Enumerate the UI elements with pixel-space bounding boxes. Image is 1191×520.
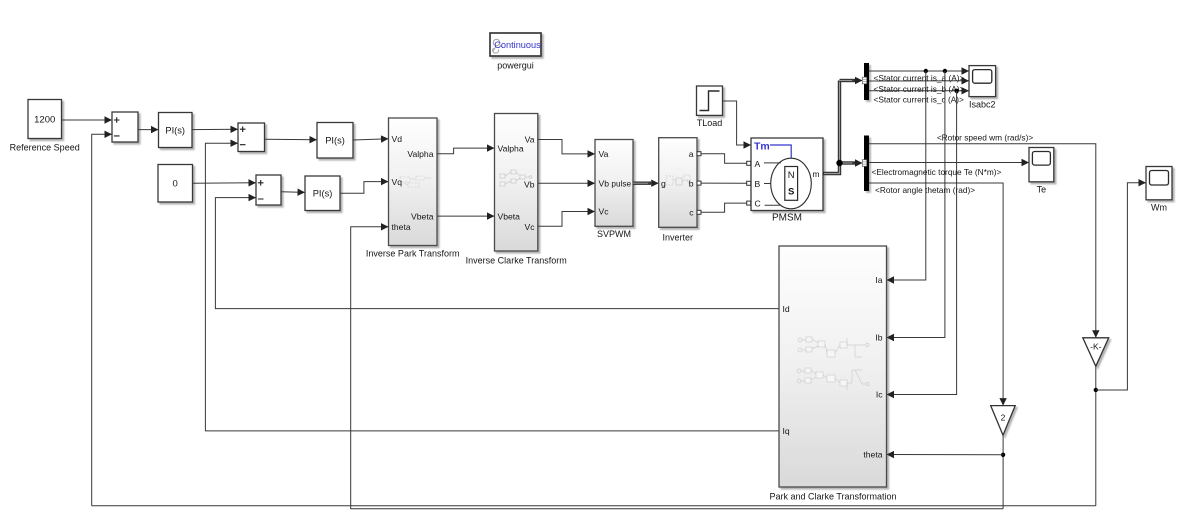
- PMSM port labels: [755, 159, 820, 209]
- svg-text:Reference Speed: Reference Speed: [10, 143, 80, 153]
- step block TLoad: [697, 86, 723, 115]
- svg-text:0: 0: [173, 179, 178, 190]
- bus selector 2 input port: [862, 160, 866, 167]
- PI controller PI1 (speed): [159, 113, 193, 148]
- svg-text:Valpha: Valpha: [407, 149, 433, 159]
- svg-text:Ic: Ic: [876, 390, 883, 400]
- junction tap Ia on is_a line: [924, 69, 928, 73]
- subsystem Park and Clarke Transformation: [779, 246, 887, 487]
- Inverter output port squares a b c: [697, 152, 701, 215]
- wire inverter c to PMSM C: [701, 203, 747, 212]
- svg-text:Park and Clarke Transformation: Park and Clarke Transformation: [769, 492, 896, 502]
- machine block PMSM: [751, 138, 823, 211]
- wire speed feedback bottom run to sum1: [92, 505, 1096, 507]
- wire stator current is_a to scope: [869, 70, 969, 72]
- constant block 0: [158, 165, 193, 203]
- svg-text:1200: 1200: [34, 115, 55, 126]
- Inverse Clarke port labels: [498, 135, 536, 232]
- bus selector 1 input port: [862, 77, 866, 84]
- wire tap down to Park Clarke Ia: [887, 71, 926, 280]
- subsystem SVPWM: [595, 140, 633, 227]
- wire 0 to sum3 plus: [193, 182, 257, 185]
- svg-text:Inverter: Inverter: [663, 233, 694, 243]
- gain -K-: [1083, 338, 1109, 367]
- PI controller PI2: [317, 123, 353, 159]
- svg-text:A: A: [755, 159, 761, 169]
- svg-text:Continuous: Continuous: [494, 40, 541, 50]
- svg-text:SVPWM: SVPWM: [597, 229, 631, 239]
- scope Wm: [1146, 167, 1172, 200]
- wire speed feedback into sum1 minus: [92, 134, 112, 506]
- svg-text:Vb: Vb: [524, 180, 535, 190]
- gain 2 (pole pairs): [991, 406, 1016, 436]
- wire TLoad to PMSM Tm: [723, 101, 752, 145]
- Inverse Park port labels: [392, 134, 434, 232]
- wire PI1 to sum2 plus: [192, 128, 238, 130]
- svg-text:g: g: [661, 178, 666, 188]
- bus wire m output of PMSM to bus selectors: [823, 81, 863, 174]
- svg-text:Vd: Vd: [392, 134, 403, 144]
- powergui block: [490, 33, 541, 56]
- svg-text:pulse: pulse: [611, 179, 631, 188]
- junction tap Ib on is_a line: [943, 69, 947, 73]
- junction tap Ic on is_c line: [954, 89, 958, 93]
- svg-text:theta: theta: [863, 450, 882, 460]
- svg-text:Inverse Clarke Transform: Inverse Clarke Transform: [466, 256, 567, 266]
- svg-text:Tm: Tm: [754, 140, 770, 152]
- wire theta to Park Clarke theta input: [887, 454, 1004, 456]
- scope Te: [1029, 148, 1054, 182]
- svg-text:Iq: Iq: [783, 426, 790, 436]
- PMSM rotor circle: [771, 158, 812, 209]
- svg-text:N: N: [788, 170, 795, 181]
- svg-text:m: m: [812, 169, 819, 179]
- subsystem Inverse Park Transform: [389, 118, 438, 246]
- Inverse Clarke faint internal icon: [500, 170, 532, 186]
- wire sum2 to PI2: [265, 138, 318, 141]
- svg-text:a: a: [689, 149, 694, 159]
- svg-text:Te: Te: [1037, 185, 1047, 195]
- svg-text:<Stator current is_a (A)>: <Stator current is_a (A)>: [874, 73, 965, 83]
- wire inverter a to PMSM A: [701, 154, 747, 164]
- svg-text:TLoad: TLoad: [697, 118, 723, 128]
- PI controller PI3: [305, 176, 340, 211]
- svg-text:Inverse Park Transform: Inverse Park Transform: [366, 249, 460, 259]
- svg-text:<Stator current is_b (A)>: <Stator current is_b (A)>: [874, 84, 965, 94]
- Inverter faint internal icon: [666, 175, 690, 185]
- svg-text:PMSM: PMSM: [772, 213, 802, 224]
- subsystem Inverter: [659, 138, 697, 228]
- bus selector 2 (rotor measurements): [864, 136, 869, 192]
- wire 1200 output to sum1 plus: [62, 119, 113, 121]
- svg-text:Wm: Wm: [1151, 203, 1167, 213]
- svg-text:powergui: powergui: [497, 61, 534, 71]
- svg-text:2: 2: [1001, 413, 1006, 423]
- Park Clarke faint internal circuit: [797, 337, 869, 390]
- bus selector 1 (stator currents): [864, 63, 869, 100]
- wire rotor speed wm to gain -K-: [869, 144, 1096, 338]
- wire stator current is_b to scope: [869, 80, 969, 82]
- wire -K- output junction branch: [1095, 366, 1097, 506]
- svg-text:Valpha: Valpha: [498, 143, 524, 153]
- svg-text:PI(s): PI(s): [325, 136, 345, 146]
- wire rotor angle thetam to gain 2: [869, 183, 1003, 406]
- wire Vb to SVPWM: [538, 182, 595, 184]
- Inverter port labels: [661, 149, 694, 217]
- svg-text:Id: Id: [783, 304, 790, 314]
- subsystem Inverse Clarke Transform: [495, 114, 538, 252]
- PMSM electrical port squares A B C: [747, 161, 751, 205]
- wire inverter b to PMSM B: [701, 182, 747, 184]
- wire stator current is_c to scope: [869, 90, 969, 92]
- wire electromagnetic torque to scope Te: [869, 162, 1029, 164]
- svg-text:PI(s): PI(s): [313, 189, 333, 199]
- svg-text:Vbeta: Vbeta: [498, 211, 521, 221]
- wire Iq feedback into sum2 minus: [205, 143, 779, 431]
- junction on -K- output: [1094, 388, 1098, 392]
- wire Valpha to Inverse Clarke: [437, 148, 495, 154]
- wire gain2 output to theta junction: [1002, 435, 1004, 509]
- svg-text:<Electromagnetic torque Te (N*: <Electromagnetic torque Te (N*m)>: [872, 167, 1002, 177]
- wire Vc to SVPWM: [538, 212, 595, 227]
- svg-text:Vq: Vq: [392, 177, 403, 187]
- PMSM internal port stubs: [764, 163, 781, 205]
- svg-text:b: b: [689, 178, 694, 188]
- svg-text:Va: Va: [525, 135, 535, 145]
- wire PI2 to Inverse Park Vd: [353, 139, 389, 140]
- wire -K- output to scope Wm: [1096, 183, 1146, 390]
- PMSM Tm label (blue) and internal line: [754, 140, 791, 158]
- svg-text:Vbeta: Vbeta: [411, 211, 434, 221]
- svg-text:Ib: Ib: [875, 333, 882, 343]
- wire PI3 to Inverse Park Vq: [340, 182, 389, 194]
- svg-text:-K-: -K-: [1090, 342, 1102, 352]
- junction theta: [1001, 453, 1005, 457]
- sum block sum2 (q current error): [238, 123, 265, 152]
- wire tap down to Park Clarke Ic: [887, 91, 957, 395]
- svg-text:Ia: Ia: [875, 275, 882, 285]
- wire Va to SVPWM: [538, 140, 595, 154]
- Park Clarke port labels: [783, 275, 884, 460]
- junction on bus at m branch: [836, 160, 842, 166]
- wire Id feedback into sum3 minus: [215, 198, 779, 309]
- wire pulse to Inverter g (vector bus): [633, 181, 659, 184]
- svg-text:S: S: [788, 187, 794, 198]
- powergui icon (gray): [493, 39, 503, 53]
- wire sum1 to PI1: [138, 129, 159, 131]
- scope Isabc2: [969, 66, 996, 97]
- constant block 1200 (Reference Speed): [28, 100, 62, 139]
- svg-text:<Rotor angle thetam (rad)>: <Rotor angle thetam (rad)>: [875, 185, 975, 195]
- svg-text:C: C: [755, 199, 761, 209]
- wire theta bottom run to Inverse Park theta: [351, 227, 1003, 509]
- svg-text:B: B: [755, 179, 761, 189]
- svg-text:<Rotor speed wm (rad/s)>: <Rotor speed wm (rad/s)>: [937, 132, 1034, 142]
- svg-text:Va: Va: [599, 149, 609, 159]
- wire sum3 to PI3: [281, 191, 305, 194]
- svg-text:<Stator current is_c (A)>: <Stator current is_c (A)>: [874, 94, 965, 104]
- svg-text:Vc: Vc: [599, 207, 610, 217]
- sum block sum3 (d current error): [256, 175, 281, 205]
- wire tap down to Park Clarke Ib: [887, 71, 945, 338]
- SVPWM port labels: [599, 149, 632, 217]
- PMSM magnet rectangle with N S: [785, 167, 798, 201]
- Inverse Park faint internal icon: [400, 176, 431, 187]
- svg-text:c: c: [689, 208, 694, 218]
- svg-text:Vb: Vb: [599, 179, 610, 189]
- svg-text:theta: theta: [392, 222, 411, 232]
- sum block sum1 (speed error): [112, 112, 138, 142]
- svg-text:PI(s): PI(s): [165, 125, 185, 135]
- wire Vbeta to Inverse Clarke: [437, 215, 495, 217]
- svg-text:Isabc2: Isabc2: [969, 100, 996, 110]
- svg-text:Vc: Vc: [524, 222, 535, 232]
